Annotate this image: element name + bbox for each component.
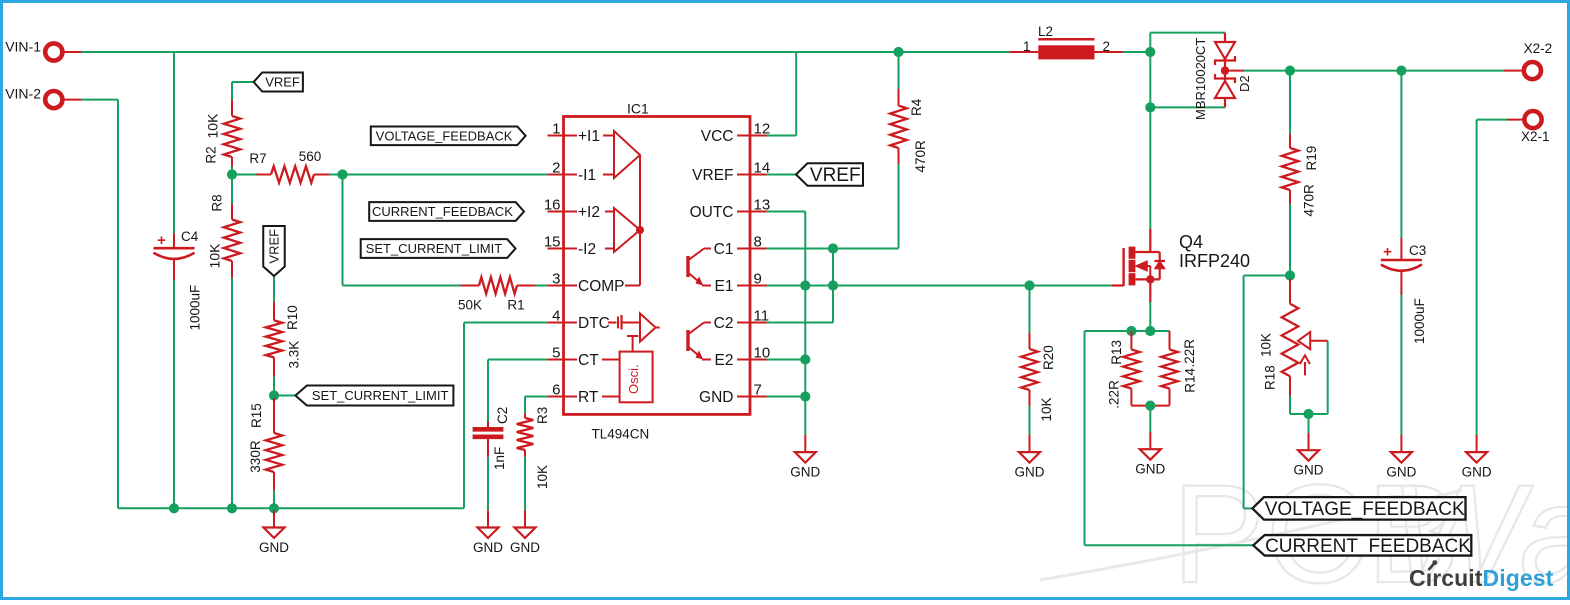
svg-text:10: 10 — [754, 344, 771, 361]
svg-text:VIN-1: VIN-1 — [5, 38, 41, 54]
svg-text:CURRENT_FEEDBACK: CURRENT_FEEDBACK — [1265, 536, 1471, 557]
svg-text:5: 5 — [552, 344, 560, 361]
svg-text:+: + — [157, 232, 166, 249]
svg-text:VREF: VREF — [810, 165, 861, 186]
svg-text:GND: GND — [259, 540, 289, 555]
svg-text:Osci.: Osci. — [626, 364, 641, 394]
svg-text:16: 16 — [544, 196, 561, 213]
svg-text:SET_CURRENT_LIMIT: SET_CURRENT_LIMIT — [366, 241, 503, 256]
svg-text:GND: GND — [1462, 464, 1492, 479]
svg-text:VOLTAGE_FEEDBACK: VOLTAGE_FEEDBACK — [376, 128, 513, 143]
svg-text:R14: R14 — [1182, 367, 1197, 392]
svg-text:R7: R7 — [249, 151, 266, 166]
svg-text:-I1: -I1 — [578, 167, 596, 184]
svg-text:IRFP240: IRFP240 — [1179, 251, 1250, 271]
svg-text:10K: 10K — [205, 113, 221, 139]
svg-text:.22R: .22R — [1106, 380, 1121, 409]
svg-text:R20: R20 — [1041, 345, 1056, 370]
svg-text:.22R: .22R — [1182, 339, 1197, 368]
svg-text:X2-1: X2-1 — [1521, 129, 1550, 144]
svg-text:1000uF: 1000uF — [1412, 298, 1427, 344]
svg-text:560: 560 — [299, 149, 322, 164]
svg-text:1: 1 — [1023, 39, 1031, 54]
svg-text:1: 1 — [552, 120, 560, 137]
svg-text:14: 14 — [754, 159, 771, 176]
svg-text:11: 11 — [754, 307, 770, 324]
svg-text:GND: GND — [1386, 464, 1416, 479]
svg-text:4: 4 — [552, 307, 560, 324]
svg-text:VREF: VREF — [267, 229, 282, 264]
svg-text:470R: 470R — [1302, 184, 1317, 217]
svg-text:+I2: +I2 — [578, 204, 600, 221]
svg-text:GND: GND — [473, 540, 503, 555]
svg-text:IC1: IC1 — [627, 101, 649, 117]
svg-text:RT: RT — [578, 389, 599, 406]
svg-text:R8: R8 — [209, 194, 224, 211]
svg-text:GND: GND — [699, 389, 733, 406]
svg-text:VOLTAGE_FEEDBACK: VOLTAGE_FEEDBACK — [1265, 499, 1465, 520]
svg-text:10K: 10K — [1259, 333, 1274, 357]
svg-text:E2: E2 — [715, 352, 734, 369]
svg-text:R13: R13 — [1109, 340, 1124, 365]
svg-text:R3: R3 — [535, 407, 550, 424]
svg-text:X2-2: X2-2 — [1524, 41, 1553, 56]
svg-text:C1: C1 — [714, 241, 734, 258]
svg-text:C2: C2 — [714, 315, 734, 332]
svg-text:9: 9 — [754, 270, 762, 287]
svg-text:470R: 470R — [913, 140, 928, 173]
svg-text:R10: R10 — [285, 305, 300, 330]
svg-text:Q4: Q4 — [1179, 232, 1203, 252]
svg-text:CURRENT_FEEDBACK: CURRENT_FEEDBACK — [372, 204, 513, 219]
svg-text:R4: R4 — [909, 98, 924, 116]
svg-text:GND: GND — [1015, 464, 1045, 479]
svg-text:13: 13 — [754, 196, 771, 213]
svg-text:12: 12 — [754, 120, 771, 137]
svg-text:3: 3 — [552, 270, 560, 287]
svg-text:VCC: VCC — [701, 128, 734, 145]
svg-text:R18: R18 — [1263, 365, 1278, 390]
svg-text:-I2: -I2 — [578, 241, 596, 258]
svg-text:R1: R1 — [507, 298, 524, 313]
svg-text:+: + — [1383, 244, 1392, 261]
svg-text:DTC: DTC — [578, 315, 610, 332]
svg-text:VREF: VREF — [265, 75, 300, 90]
svg-text:1000uF: 1000uF — [188, 285, 203, 331]
svg-text:C3: C3 — [1409, 243, 1426, 258]
svg-text:VREF: VREF — [692, 167, 733, 184]
svg-text:TL494CN: TL494CN — [592, 427, 650, 442]
svg-text:15: 15 — [544, 233, 561, 250]
svg-text:6: 6 — [552, 381, 560, 398]
svg-text:GND: GND — [790, 464, 820, 479]
svg-text:OUTC: OUTC — [690, 204, 734, 221]
svg-text:E1: E1 — [715, 278, 734, 295]
svg-text:D2: D2 — [1237, 75, 1252, 92]
svg-text:MBR10020CT: MBR10020CT — [1193, 38, 1208, 120]
svg-text:3.3K: 3.3K — [287, 341, 302, 369]
svg-text:VIN-2: VIN-2 — [5, 86, 41, 102]
svg-text:50K: 50K — [458, 298, 482, 313]
svg-text:SET_CURRENT_LIMIT: SET_CURRENT_LIMIT — [312, 388, 449, 403]
svg-text:GND: GND — [1135, 462, 1165, 477]
svg-text:COMP: COMP — [578, 278, 625, 295]
svg-text:CT: CT — [578, 352, 599, 369]
svg-text:1nF: 1nF — [492, 447, 507, 470]
svg-text:R2: R2 — [204, 146, 219, 163]
svg-text:10K: 10K — [1039, 397, 1054, 421]
svg-text:8: 8 — [754, 233, 762, 250]
svg-text:+I1: +I1 — [578, 128, 600, 145]
svg-text:330R: 330R — [248, 440, 263, 473]
svg-text:10K: 10K — [207, 243, 223, 269]
svg-text:C4: C4 — [181, 229, 199, 244]
svg-text:2: 2 — [1103, 39, 1111, 54]
svg-text:L2: L2 — [1038, 24, 1053, 39]
svg-text:GND: GND — [1294, 463, 1324, 478]
svg-text:R15: R15 — [249, 403, 264, 428]
svg-text:GND: GND — [510, 540, 540, 555]
svg-text:10K: 10K — [535, 465, 550, 489]
svg-text:C2: C2 — [495, 407, 510, 424]
svg-text:R19: R19 — [1304, 146, 1319, 171]
svg-text:2: 2 — [552, 159, 560, 176]
svg-text:7: 7 — [754, 381, 762, 398]
